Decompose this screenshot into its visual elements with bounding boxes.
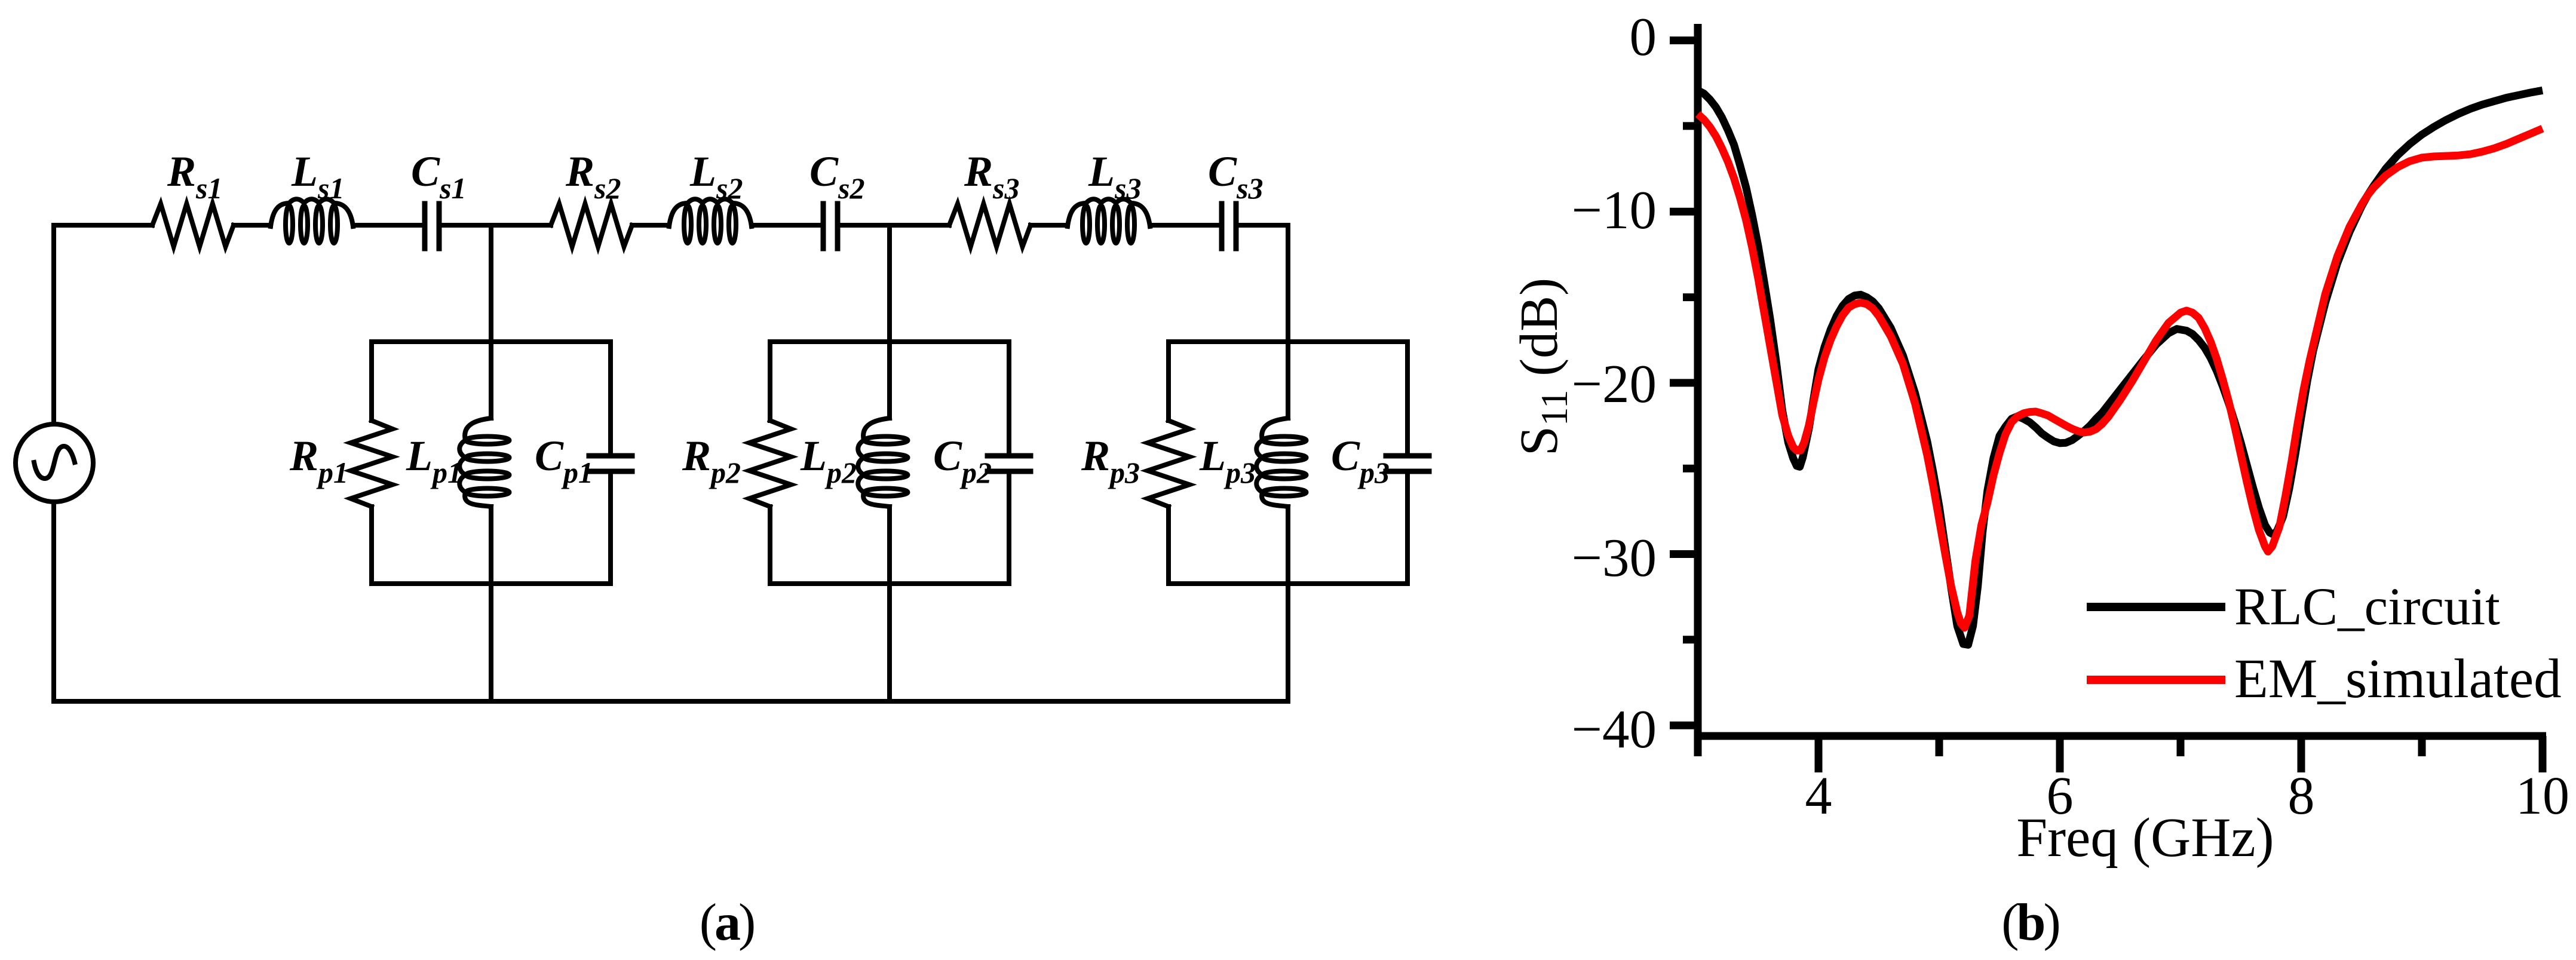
x tick labels — [1805, 766, 2570, 826]
wire: tank 1 right column upper — [608, 342, 613, 453]
wire: tank 1 left column upper — [369, 342, 374, 421]
resistor Rs1 — [152, 204, 234, 247]
wire: Ls1 to Cs1 — [353, 223, 422, 228]
svg-text:4: 4 — [1805, 766, 1832, 826]
wire: tank 3 right column lower — [1405, 474, 1410, 584]
legend swatch RLC_circuit — [2087, 603, 2225, 611]
capacitor Cp1 — [589, 456, 632, 471]
svg-text:−10: −10 — [1572, 180, 1657, 240]
wire: tank 3 left column lower — [1166, 507, 1171, 584]
svg-text:EM_simulated: EM_simulated — [2234, 648, 2562, 710]
tank 1 top rail wire — [372, 339, 611, 344]
wire: top-left corner to Rs1 — [54, 223, 152, 228]
wire: Cs1 to Rs2 (node A) — [441, 223, 551, 228]
svg-text:(b): (b) — [2001, 894, 2059, 952]
wire: Cs3 to right corner — [1238, 223, 1288, 228]
legend swatch EM_simulated — [2087, 676, 2225, 684]
AC source Vs — [16, 424, 93, 502]
wire: Rs3 to Ls3 — [1031, 223, 1068, 228]
wire: node 1 vertical, tank 1 to bottom bus — [489, 507, 493, 701]
capacitor Cp3 — [1386, 456, 1429, 471]
tank 1 bottom rail wire — [372, 581, 611, 586]
y axis minor ticks — [1683, 126, 1698, 640]
wire: bottom bus / ground return — [54, 699, 1288, 704]
tank 3 top rail wire — [1169, 339, 1407, 344]
wire: Ls3 to Cs3 — [1150, 223, 1219, 228]
wire: node 3 vertical, top wire into tank 3 — [1286, 225, 1290, 418]
x axis minor ticks — [1698, 736, 2422, 756]
wire: node 1 vertical, top wire into tank 1 — [489, 225, 493, 418]
inductor Lp1 — [459, 418, 491, 507]
wire: tank 2 right column upper — [1007, 342, 1011, 453]
inductor Ls1 — [271, 199, 353, 226]
svg-text:(a): (a) — [700, 894, 754, 952]
wire: Cs2 to Rs3 (node B) — [840, 223, 949, 228]
y tick labels — [1572, 7, 1657, 759]
inductor Lp2 — [858, 418, 890, 507]
svg-text:−20: −20 — [1572, 354, 1657, 414]
wire: node 3 vertical, tank 3 to bottom bus — [1286, 507, 1290, 701]
wire: tank 3 left column upper — [1166, 342, 1171, 421]
svg-text:S11 (dB): S11 (dB) — [1510, 278, 1575, 456]
svg-text:0: 0 — [1630, 7, 1657, 67]
svg-text:−30: −30 — [1572, 527, 1657, 588]
svg-text:8: 8 — [2288, 766, 2315, 826]
x axis major ticks — [1818, 736, 2543, 772]
wire: Rs1 to Ls1 — [234, 223, 271, 228]
wire: node 2 vertical, tank 2 to bottom bus — [887, 507, 892, 701]
curve RLC_circuit (black) — [1698, 90, 2543, 645]
svg-text:Freq (GHz): Freq (GHz) — [2016, 807, 2274, 869]
wire: Ls2 to Cs2 — [752, 223, 821, 228]
capacitor Cs1 — [425, 204, 439, 249]
wire: tank 2 right column lower — [1007, 474, 1011, 584]
inductor Lp3 — [1256, 418, 1288, 507]
capacitor Cp2 — [988, 456, 1031, 471]
resistor Rp2 — [749, 421, 791, 507]
resistor Rp1 — [351, 421, 392, 507]
svg-text:−40: −40 — [1572, 699, 1657, 759]
tank 2 bottom rail wire — [770, 581, 1009, 586]
tank 2 top rail wire — [770, 339, 1009, 344]
capacitor Cs2 — [823, 204, 838, 249]
inductor Ls2 — [669, 199, 752, 226]
wire: tank 2 left column upper — [768, 342, 772, 421]
y axis major ticks — [1670, 41, 1698, 726]
wire: tank 3 right column upper — [1405, 342, 1410, 453]
inductor Ls3 — [1068, 199, 1150, 226]
wire: tank 1 right column lower — [608, 474, 613, 584]
y axis line — [1694, 24, 1702, 740]
wire: tank 1 left column lower — [369, 507, 374, 584]
x axis line — [1694, 732, 2547, 740]
resistor Rs3 — [949, 204, 1031, 247]
wire: source bottom to bottom bus — [51, 502, 56, 701]
wire: tank 2 left column lower — [768, 507, 772, 584]
svg-text:RLC_circuit: RLC_circuit — [2234, 578, 2500, 636]
wire: node 2 vertical, top wire into tank 2 — [887, 225, 892, 418]
tank 3 bottom rail wire — [1169, 581, 1407, 586]
capacitor Cs3 — [1222, 204, 1236, 249]
resistor Rp3 — [1148, 421, 1189, 507]
svg-text:10: 10 — [2516, 766, 2569, 826]
wire: Rs2 to Ls2 — [632, 223, 669, 228]
resistor Rs2 — [551, 204, 632, 247]
wire: left vertical, top corner to source top — [51, 225, 56, 424]
curve EM_simulated (red) — [1698, 114, 2543, 628]
